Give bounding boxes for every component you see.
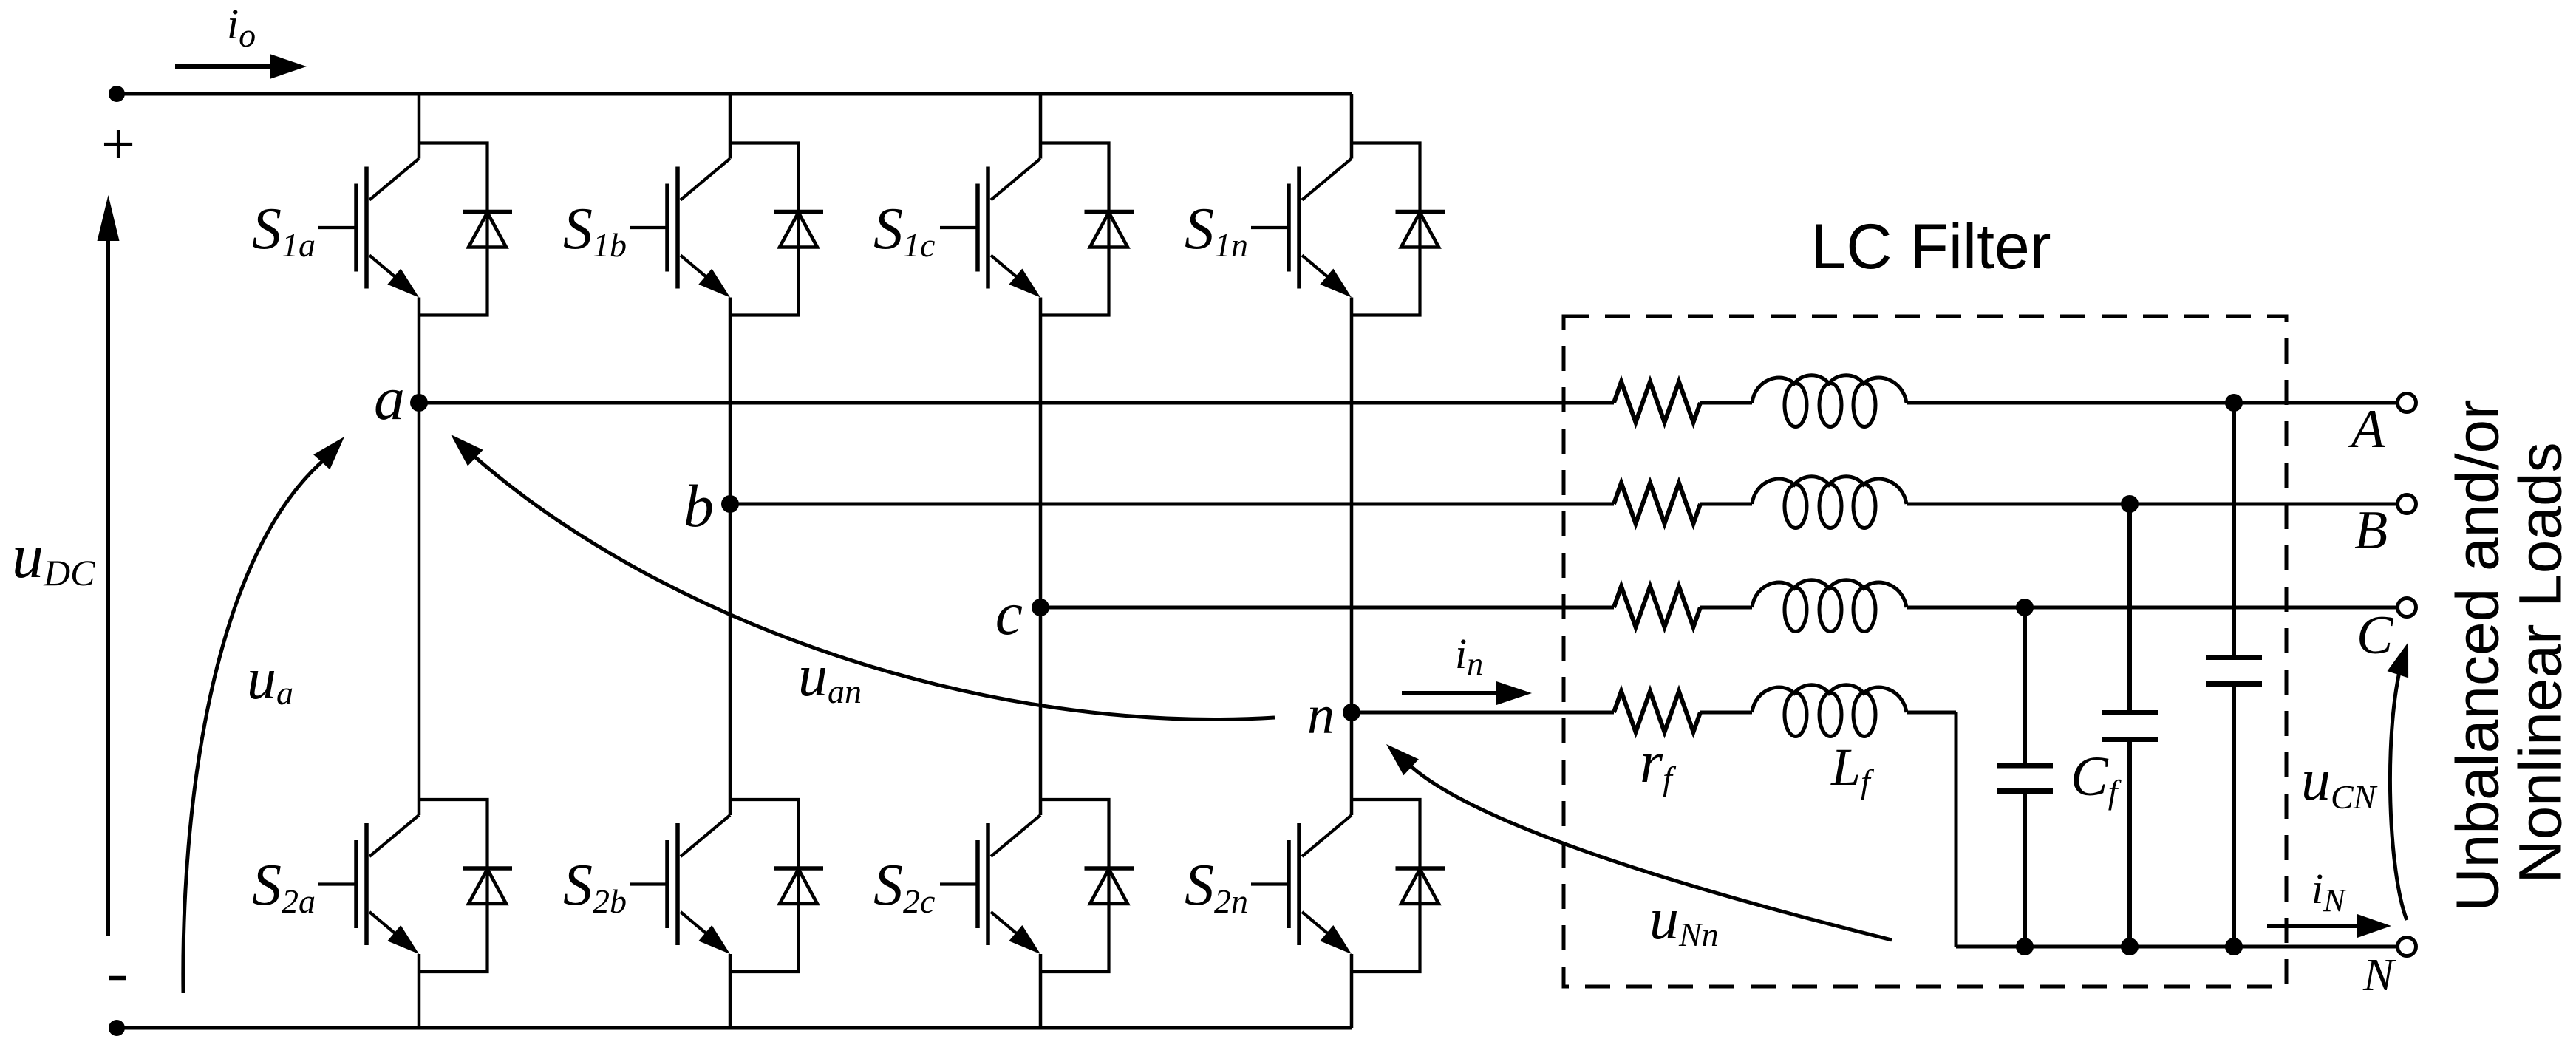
transistor S1n (upper IGBT, leg n): [1251, 159, 1352, 298]
inductor L_f (phase a): [1752, 375, 1907, 403]
resistor r_f (phase a): [1614, 382, 1700, 423]
diode D2b (antiparallel with S2b): [730, 800, 823, 972]
wire: leg a midpoint segment: [418, 298, 421, 816]
arrow: i_n (neutral current into filter): [1402, 691, 1500, 695]
transistor S2b (lower IGBT, leg b): [630, 815, 730, 954]
resistor r_f (phase n): [1614, 692, 1700, 732]
svg-text:Unbalanced and/or: Unbalanced and/or: [2444, 400, 2512, 912]
wire: r_f to L_f (phase b): [1700, 503, 1752, 506]
wire: capacitor lead (phase C, lower): [2023, 794, 2027, 947]
wire: capacitor lead (phase A, upper): [2232, 403, 2236, 655]
svg-text:C: C: [2357, 605, 2394, 666]
wire: leg b collector segment (from + rail): [729, 94, 732, 159]
diode D1a (antiparallel with S1a): [419, 143, 512, 316]
svg-text:b: b: [684, 472, 714, 539]
transistor S2a (lower IGBT, leg a): [318, 815, 419, 954]
inductor L_f (phase b): [1752, 477, 1907, 504]
diode D2n (antiparallel with S2n): [1352, 800, 1445, 972]
node: junction A / capacitor tap: [2225, 394, 2243, 412]
node: junction on neutral bus (C cap): [2016, 938, 2034, 955]
node b (phase-leg midpoint): [721, 495, 739, 513]
wire: phase a to filter: [419, 401, 1614, 405]
svg-text:a: a: [374, 364, 405, 433]
wire: phase c to filter: [1040, 606, 1614, 610]
wire: positive DC rail (top): [117, 92, 1352, 96]
node: DC+ terminal dot (top-left): [109, 86, 125, 102]
diode D2c (antiparallel with S2c): [1040, 800, 1134, 972]
transistor S1a (upper IGBT, leg a): [318, 159, 419, 298]
svg-text:Nonlinear Loads: Nonlinear Loads: [2507, 442, 2575, 883]
wire: leg c collector segment (from + rail): [1039, 94, 1043, 159]
label: - (negative DC): [109, 976, 126, 981]
arrow: i_o (top, right): [175, 64, 275, 69]
node: junction on neutral bus (B cap): [2121, 938, 2139, 955]
node: DC- terminal dot (bottom-left): [109, 1020, 125, 1036]
resistor r_f (phase c): [1614, 587, 1700, 627]
node: junction on neutral bus (A cap): [2225, 938, 2243, 955]
svg-text:B: B: [2354, 500, 2388, 561]
terminal C (open circle): [2398, 599, 2416, 617]
wire: leg a emitter segment (to - rail): [418, 954, 421, 1028]
wire: capacitor lead (phase B, upper): [2127, 504, 2132, 710]
node a (phase-leg midpoint): [410, 394, 428, 412]
transistor S2n (lower IGBT, leg n): [1251, 815, 1352, 954]
wire: capacitor lead (phase A, lower): [2232, 687, 2236, 947]
wire: phase a filter output: [1907, 401, 2396, 405]
wire: phase n filter output (to neutral bus): [1907, 711, 1956, 715]
wire: leg n midpoint segment: [1350, 298, 1354, 816]
wire: phase b to filter: [730, 503, 1614, 506]
wire: r_f to L_f (phase n): [1700, 711, 1752, 715]
terminal B (open circle): [2398, 495, 2416, 514]
wire: leg n emitter segment (to - rail): [1350, 954, 1354, 1028]
wire: leg b emitter segment (to - rail): [729, 954, 732, 1028]
wire: neutral bus N (bottom of filter): [1956, 945, 2397, 949]
arrow: u_DC measurement (vertical, up): [106, 222, 110, 936]
transistor S1b (upper IGBT, leg b): [630, 159, 730, 298]
arrow: i_N (load neutral current): [2267, 924, 2359, 928]
arrow: u_a curved (phase-a pole voltage): [183, 459, 325, 993]
wire: phase n to filter: [1352, 711, 1614, 715]
svg-text:LC Filter: LC Filter: [1811, 211, 2051, 282]
node: junction C / capacitor tap: [2016, 599, 2034, 616]
boundary: LC filter dashed box: [1564, 316, 2286, 987]
arrow: u_Nn curved (N-to-n voltage): [1408, 764, 1892, 940]
svg-text:c: c: [995, 579, 1023, 648]
inductor L_f (phase n): [1752, 685, 1907, 712]
wire: capacitor lead (phase C, upper): [2023, 607, 2027, 763]
wire: capacitor lead (phase B, lower): [2127, 742, 2132, 947]
arrow: u_an curved (a-to-n voltage): [472, 454, 1275, 720]
svg-text:N: N: [2362, 950, 2396, 1001]
transistor S1c (upper IGBT, leg c): [940, 159, 1040, 298]
inductor L_f (phase c): [1752, 580, 1907, 607]
wire: phase b filter output: [1907, 503, 2396, 506]
wire: leg a collector segment (from + rail): [418, 94, 421, 159]
wire: leg n collector segment (from + rail): [1350, 94, 1354, 159]
capacitor Cf (phase C): [1997, 763, 2053, 769]
node: junction B / capacitor tap: [2121, 495, 2139, 513]
wire: leg c midpoint segment: [1039, 298, 1043, 816]
wire: r_f to L_f (phase c): [1700, 606, 1752, 610]
transistor S2c (lower IGBT, leg c): [940, 815, 1040, 954]
svg-text:A: A: [2348, 399, 2385, 460]
diode D1b (antiparallel with S1b): [730, 143, 823, 316]
wire: phase c filter output: [1907, 606, 2396, 610]
diode D1n (antiparallel with S1n): [1352, 143, 1445, 316]
wire: leg b midpoint segment: [729, 298, 732, 816]
svg-text:+: +: [101, 110, 135, 177]
arrow: u_CN curved (C-to-N load voltage): [2390, 669, 2407, 920]
wire: negative DC rail (bottom): [117, 1026, 1352, 1030]
terminal A (open circle): [2398, 394, 2416, 412]
wire: leg c emitter segment (to - rail): [1039, 954, 1043, 1028]
capacitor Cf (phase B): [2102, 710, 2158, 715]
capacitor Cf (phase A): [2206, 655, 2262, 660]
diode D2a (antiparallel with S2a): [419, 800, 512, 972]
node c (phase-leg midpoint): [1032, 599, 1049, 616]
terminal N (open circle): [2398, 938, 2416, 956]
diode D1c (antiparallel with S1c): [1040, 143, 1134, 316]
resistor r_f (phase b): [1614, 483, 1700, 524]
wire: r_f to L_f (phase a): [1700, 401, 1752, 405]
node n (phase-leg midpoint): [1343, 704, 1360, 721]
svg-text:n: n: [1307, 685, 1335, 746]
